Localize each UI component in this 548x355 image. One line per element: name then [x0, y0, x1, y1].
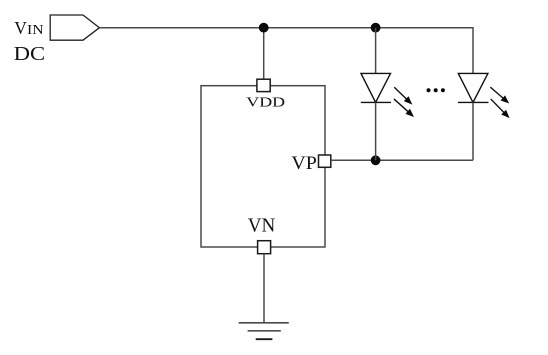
ellipsis: more LED strings [427, 88, 445, 92]
wire LED D1 anode [375, 28, 377, 74]
junction dot node A (top rail / VDD) [259, 23, 269, 33]
pin square VP [319, 155, 331, 167]
wire LED D1 cathode [375, 102, 377, 160]
svg-text:VP: VP [291, 153, 316, 174]
DC input source tag VIN [50, 15, 99, 40]
wire VN pin to ground [263, 254, 265, 323]
pin square VN [258, 241, 271, 254]
IC box U1 [201, 86, 325, 247]
LED D1 light emission arrow 1 [392, 85, 415, 107]
LED D2 cathode bar [458, 101, 489, 103]
LED D2 light emission arrow 2 [488, 97, 512, 121]
wire VP pin to LED cathode rail [331, 159, 473, 161]
LED D1 light emission arrow 2 [392, 96, 417, 119]
junction dot node B (LED D1 anode on top rail) [371, 23, 381, 33]
junction dot node C (LED D1 cathode on VP rail) [371, 155, 381, 165]
LED D2 light emission arrow 1 [488, 85, 511, 107]
svg-text:V: V [14, 18, 27, 38]
svg-text:VDD: VDD [246, 96, 285, 111]
wire top rail corner down to LED D2 anode [472, 27, 474, 74]
LED D2 diode triangle [458, 73, 488, 102]
wire LED D2 anode [472, 72, 474, 74]
wire junction dot to VDD pin [263, 28, 265, 80]
LED D1 diode triangle [361, 73, 391, 102]
svg-text:VN: VN [248, 216, 275, 237]
wire top rail [99, 27, 473, 29]
svg-text:DC: DC [14, 44, 45, 65]
ground [239, 323, 289, 339]
wire LED D2 cathode [472, 102, 474, 160]
svg-text:IN: IN [27, 22, 44, 37]
pin square VDD [257, 79, 270, 91]
LED D1 cathode bar [361, 101, 391, 103]
